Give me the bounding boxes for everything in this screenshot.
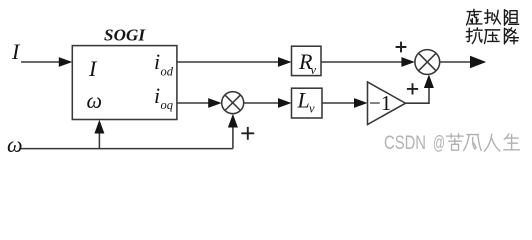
svg-text:od: od [161,65,174,79]
svg-text:SOGI: SOGI [104,25,146,44]
svg-text:oq: oq [161,98,174,112]
svg-text:ω: ω [7,132,23,157]
svg-text:v: v [309,102,315,116]
svg-text:L: L [297,88,310,113]
svg-text:I: I [11,39,21,64]
svg-text:v: v [311,63,317,77]
svg-text:i: i [154,49,160,74]
svg-text:CSDN: CSDN [384,133,426,154]
svg-text:−1: −1 [369,91,391,115]
svg-text:ω: ω [87,88,103,113]
svg-text:i: i [154,83,160,108]
svg-text:I: I [88,56,98,81]
svg-text:@: @ [433,133,445,154]
